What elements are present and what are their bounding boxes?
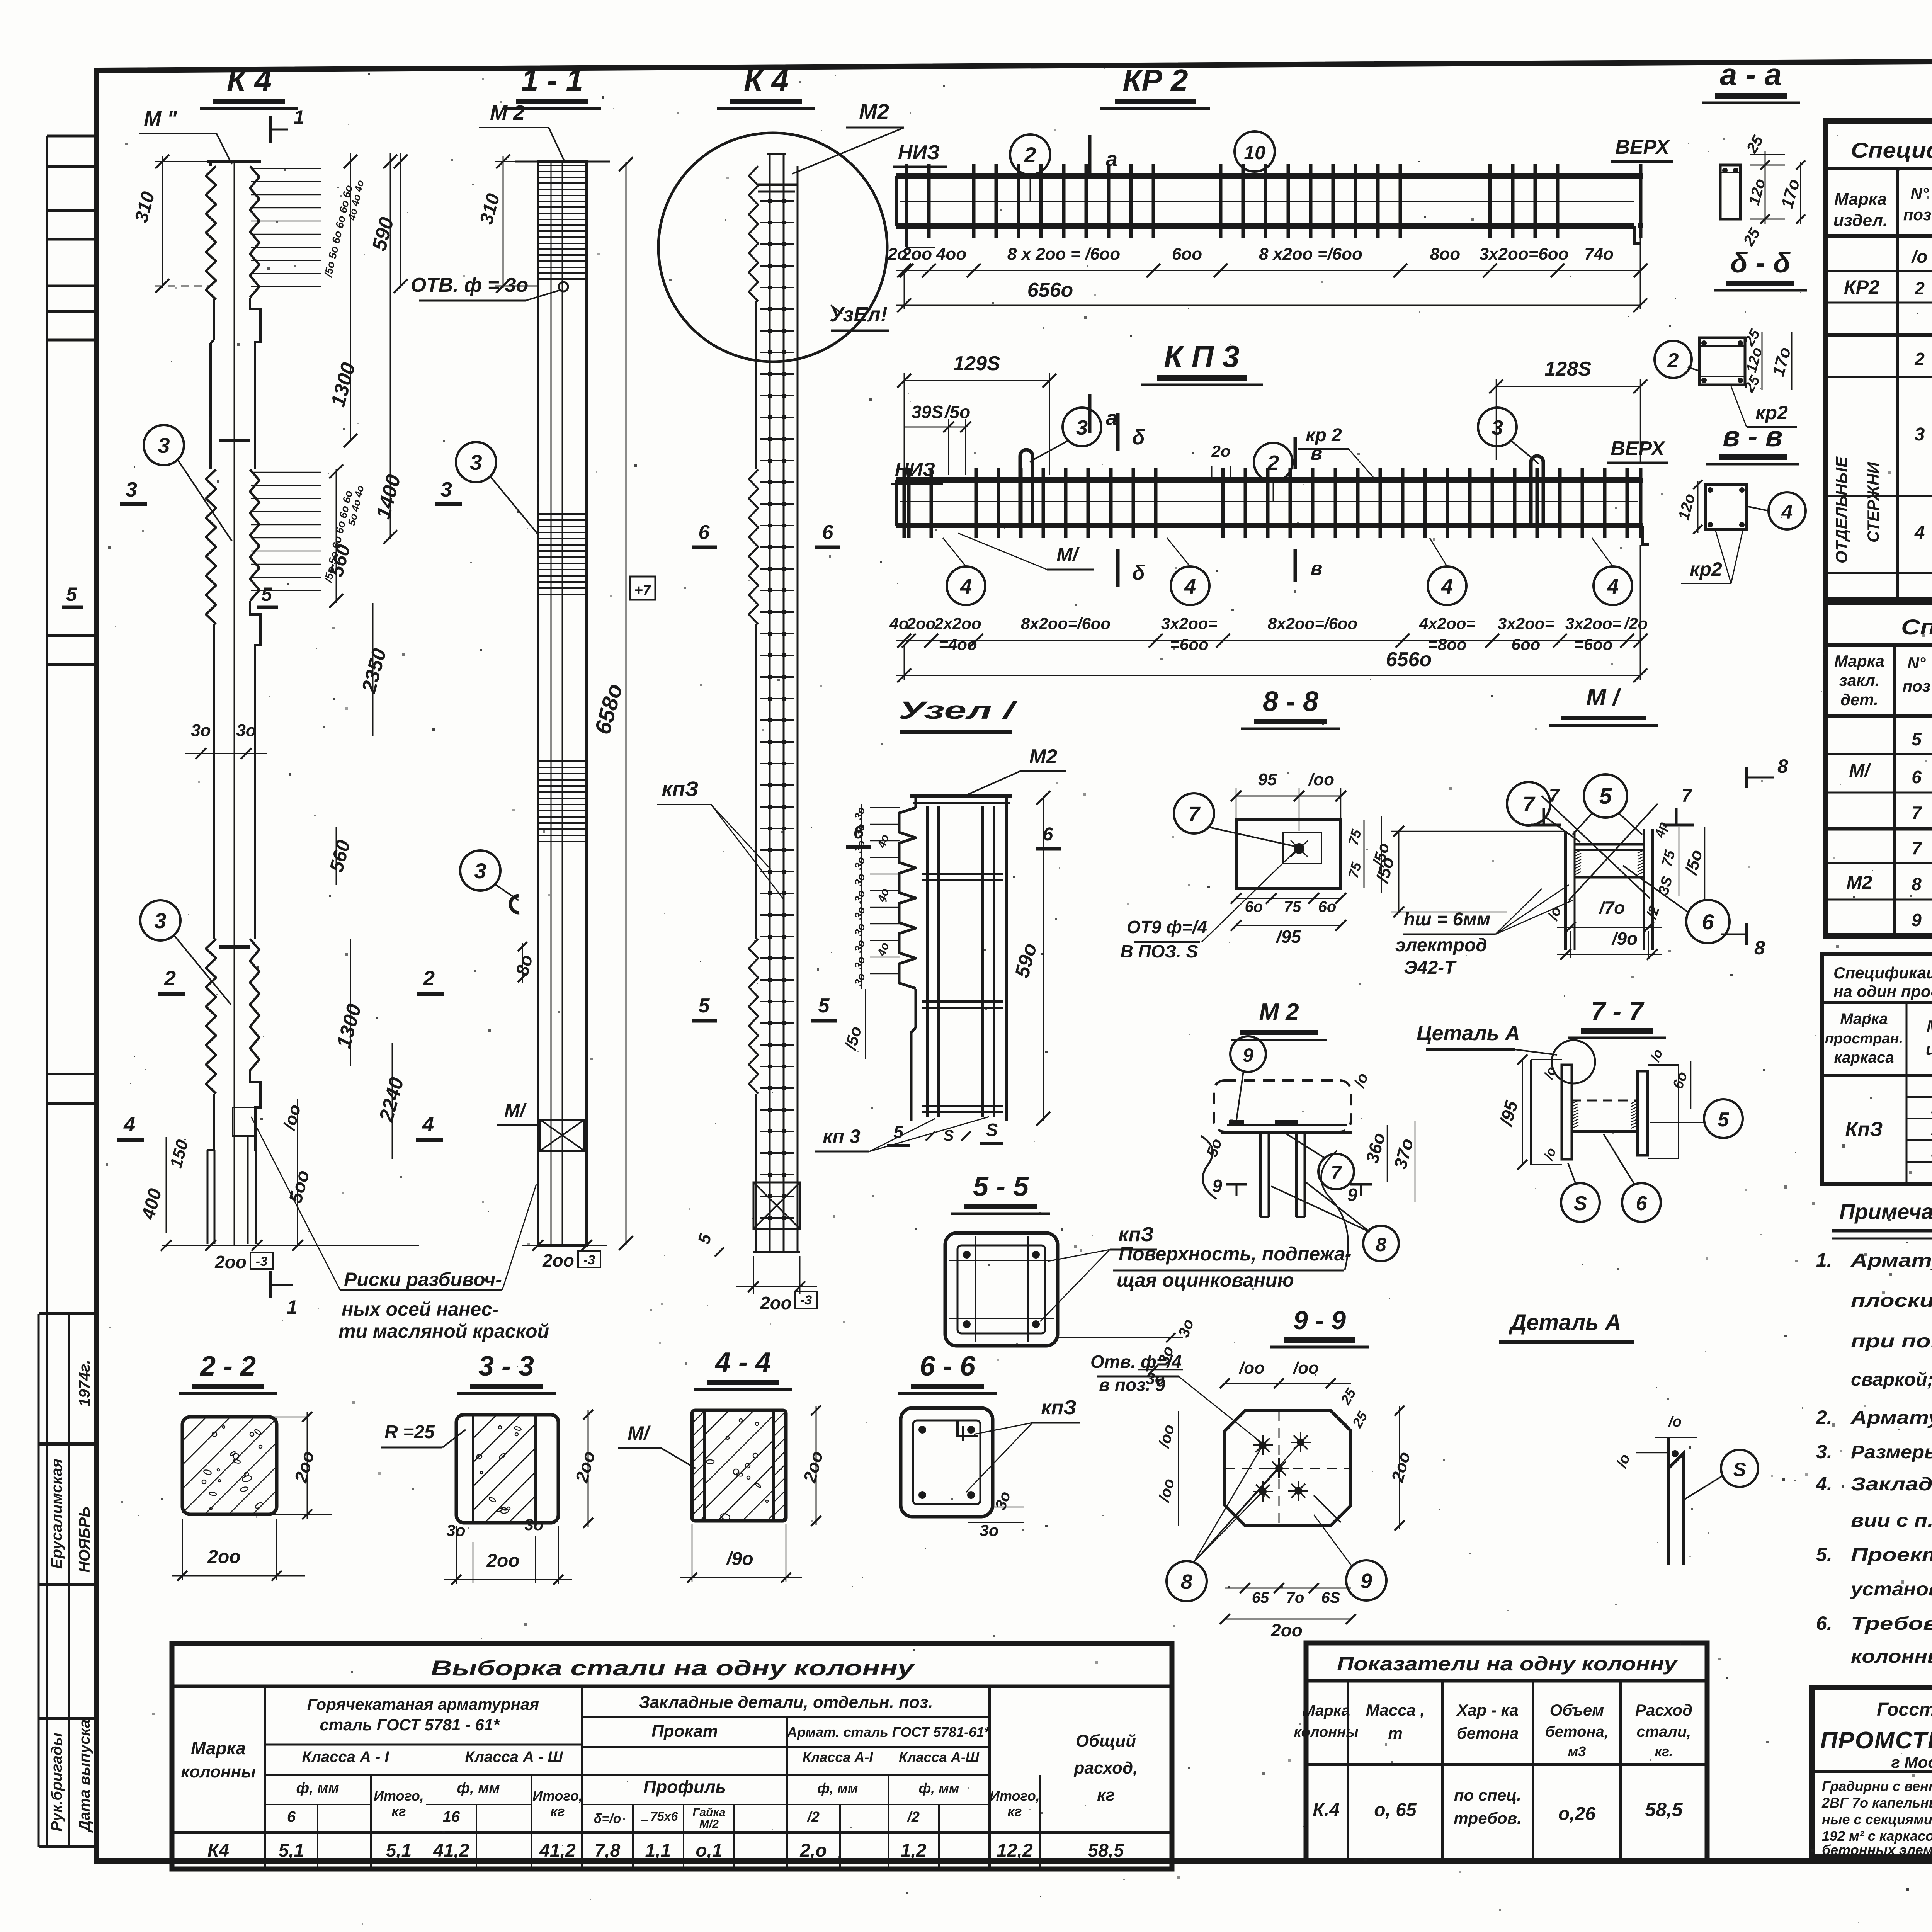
column K4 bottom legs <box>207 1150 209 1244</box>
svg-text:hш = 6мм: hш = 6мм <box>1404 909 1490 930</box>
leaders to riski text <box>251 1117 340 1290</box>
svg-text:3о: 3о <box>236 721 256 740</box>
svg-text:2оо: 2оо <box>901 245 932 264</box>
svg-text:колонны: колонны <box>181 1762 256 1781</box>
section mark a bottom <box>1088 394 1092 433</box>
svg-text:СТЕРЖНИ: СТЕРЖНИ <box>1864 462 1882 543</box>
svg-text:3о: 3о <box>191 721 211 740</box>
7-7 bar between <box>1572 1100 1638 1102</box>
svg-text:ПРОМСТРОЙПРОЕКТ: ПРОМСТРОЙПРОЕКТ <box>1820 1726 1932 1754</box>
svg-text:М/2: М/2 <box>699 1818 719 1830</box>
7-7 right plate <box>1638 1071 1648 1155</box>
svg-text:Дата выпуска: Дата выпуска <box>76 1719 93 1833</box>
svg-text:К 4: К 4 <box>227 63 272 97</box>
svg-text:3х2оо=: 3х2оо= <box>1498 614 1554 633</box>
svg-text:Выборка стали на одну коло: Выборка стали на одну колонну <box>431 1656 915 1680</box>
svg-text:129S: 129S <box>953 352 1000 375</box>
svg-text:7: 7 <box>1682 786 1693 806</box>
svg-text:192 м² с каркасом из железо-: 192 м² с каркасом из железо- <box>1822 1828 1932 1844</box>
svg-text:58,5: 58,5 <box>1088 1840 1124 1861</box>
svg-text:Класса А - I: Класса А - I <box>302 1748 389 1765</box>
svg-text:2оо: 2оо <box>486 1551 519 1571</box>
pos circle 3 (1-1) <box>456 442 496 482</box>
svg-text:/2: /2 <box>806 1809 820 1825</box>
svg-text:ные с секциями площадью: ные с секциями площадью <box>1822 1811 1932 1827</box>
svg-text:КР2: КР2 <box>1844 276 1879 298</box>
svg-text:4: 4 <box>960 575 972 598</box>
svg-text:НИЗ: НИЗ <box>895 459 935 480</box>
svg-text:2ВГ 7о капельные и брызгаль-: 2ВГ 7о капельные и брызгаль- <box>1821 1795 1932 1811</box>
pos circle 4 (v-v) <box>1769 492 1806 529</box>
svg-text:/2: /2 <box>906 1809 920 1825</box>
svg-text:7о: 7о <box>1286 1589 1304 1606</box>
svg-text:Итого,: Итого, <box>374 1788 424 1804</box>
svg-text:Спецификация и выборка стал: Спецификация и выборка стали на одно арм… <box>1851 138 1932 162</box>
pos circle 2 (b-b) <box>1655 341 1692 378</box>
svg-text:о, 65: о, 65 <box>1374 1800 1417 1820</box>
svg-text:ОТВ. ф = 3о: ОТВ. ф = 3о <box>411 274 529 296</box>
svg-text:1: 1 <box>294 106 304 128</box>
section mark b top (KP3) <box>1116 413 1120 451</box>
svg-text:Спецификация арматурных изде: Спецификация арматурных изделий <box>1833 964 1932 982</box>
svg-text:Ерусалимская: Ерусалимская <box>48 1459 65 1569</box>
vyborka grid <box>264 1686 266 1869</box>
svg-text:бетона,: бетона, <box>1545 1723 1609 1740</box>
pos circle 2 (KP3) <box>1254 443 1293 481</box>
svg-text:в: в <box>1311 558 1322 579</box>
svg-text:электрод: электрод <box>1395 935 1487 956</box>
M1 web angle <box>1575 843 1644 846</box>
svg-text:7: 7 <box>1522 792 1536 816</box>
svg-text:на один пространственный к: на один пространственный каркас <box>1833 982 1932 1000</box>
svg-text:КР 2: КР 2 <box>1122 63 1188 97</box>
svg-text:/95: /95 <box>1276 927 1301 947</box>
cage longitudinal bars <box>769 155 771 1252</box>
svg-text:41,2: 41,2 <box>433 1840 469 1861</box>
M2 plate dashed <box>1214 1080 1351 1132</box>
svg-text:М/: М/ <box>628 1422 651 1444</box>
svg-text:8х2оо=/6оо: 8х2оо=/6оо <box>1268 614 1357 633</box>
svg-text:5: 5 <box>699 995 710 1017</box>
9-9 pos circle 8 <box>1167 1561 1207 1601</box>
svg-text:Гайка: Гайка <box>692 1806 725 1819</box>
svg-text:=4оо: =4оо <box>939 635 977 653</box>
svg-text:7: 7 <box>1549 786 1560 806</box>
svg-text:ф, мм: ф, мм <box>457 1780 500 1796</box>
svg-text:2х2оо: 2х2оо <box>934 614 981 633</box>
ribbed band top (1-1) <box>539 165 585 166</box>
svg-text:8: 8 <box>1181 1570 1192 1594</box>
column 1-1 outline <box>515 161 610 163</box>
svg-text:К 4: К 4 <box>744 63 789 97</box>
svg-text:4: 4 <box>1441 575 1453 598</box>
svg-text:М 2: М 2 <box>1259 999 1299 1026</box>
svg-text:3х2оо=6оо: 3х2оо=6оо <box>1479 245 1568 264</box>
svg-text:по спец.: по спец. <box>1454 1786 1521 1804</box>
small dimension fan lines top band <box>251 168 321 169</box>
svg-text:6о: 6о <box>1245 898 1263 915</box>
8-8 dims above <box>1236 796 1341 797</box>
svg-text:7: 7 <box>1331 1162 1342 1184</box>
8-8 dims right <box>1364 820 1365 888</box>
svg-text:бетонных элементов: бетонных элементов <box>1822 1842 1932 1858</box>
scan noise speckles <box>1689 1446 1691 1449</box>
svg-text:9: 9 <box>1347 1185 1357 1205</box>
svg-text:2: 2 <box>164 967 176 990</box>
uzel1 stirrup ties <box>922 873 1003 875</box>
dim lines column K4 <box>400 153 401 288</box>
svg-text:Спецификация стали на одну: Спецификация стали на одну закладную дет… <box>1901 615 1932 639</box>
column 1-1 base with M1 embed cross <box>540 1120 584 1151</box>
svg-text:8: 8 <box>1754 937 1765 959</box>
svg-text:кг: кг <box>391 1803 406 1819</box>
M1 plates <box>1564 831 1567 950</box>
detail A dims <box>1655 1437 1697 1438</box>
section a-a drawing <box>1720 165 1740 219</box>
table pokazateli outer <box>1306 1643 1707 1861</box>
svg-text:3х2оо=: 3х2оо= <box>1565 614 1622 633</box>
svg-text:74о: 74о <box>1584 245 1614 264</box>
svg-text:простран.: простран. <box>1825 1031 1903 1047</box>
pos circle 3 (KP3 left) <box>1063 408 1101 446</box>
svg-text:Риски разбивоч-: Риски разбивоч- <box>344 1269 502 1290</box>
svg-text:г Москва 1973г: г Москва 1973г <box>1891 1753 1932 1771</box>
svg-text:7: 7 <box>1188 803 1201 826</box>
9-9 dims left <box>1178 1411 1179 1526</box>
svg-text:Марка: Марка <box>1834 190 1887 209</box>
svg-text:6: 6 <box>1636 1192 1648 1215</box>
svg-text:2: 2 <box>423 967 435 990</box>
svg-text:9: 9 <box>1912 910 1922 930</box>
svg-text:Класса А - Ш: Класса А - Ш <box>465 1748 563 1765</box>
svg-text:/оо: /оо <box>1238 1359 1265 1378</box>
svg-text:3.: 3. <box>1816 1441 1832 1463</box>
8-8 dims below <box>1236 898 1341 899</box>
KP3 frame bars <box>896 477 1642 483</box>
svg-text:а - а: а - а <box>1720 57 1782 92</box>
pos circle 3 (KP3 right) <box>1478 408 1517 446</box>
svg-text:кр2: кр2 <box>1690 558 1722 580</box>
svg-text:8х2оо=/6оо: 8х2оо=/6оо <box>1021 614 1111 633</box>
svg-text:75: 75 <box>1284 898 1301 915</box>
svg-text:6: 6 <box>1912 767 1922 787</box>
svg-text:9 - 9: 9 - 9 <box>1293 1306 1346 1335</box>
pos circles 4 (KP3) <box>947 566 985 605</box>
svg-text:+7: +7 <box>634 582 651 599</box>
section b-b drawing <box>1699 338 1745 385</box>
KP3 dim 1285 right <box>1496 386 1640 387</box>
310 dim col1 <box>162 156 163 288</box>
svg-text:расход,: расход, <box>1074 1759 1138 1777</box>
8-8 plate rect <box>1236 820 1341 888</box>
M2 pos circle 8 <box>1363 1226 1399 1261</box>
svg-text:1,1: 1,1 <box>645 1840 671 1861</box>
svg-text:/о: /о <box>1911 247 1928 267</box>
svg-text:5: 5 <box>1718 1109 1730 1131</box>
column K4 cage outline <box>767 153 786 155</box>
svg-text:=6оо: =6оо <box>1170 635 1208 653</box>
svg-text:4о: 4о <box>889 614 908 633</box>
pos circle 3 (1-1 mid) + hook <box>460 850 500 891</box>
cage stirrup ticks <box>760 200 794 202</box>
svg-text:щая оцинкованию: щая оцинкованию <box>1117 1269 1294 1291</box>
svg-text:Класса А-Ш: Класса А-Ш <box>899 1749 980 1765</box>
svg-text:5: 5 <box>261 583 272 605</box>
detail A drawing <box>1668 1437 1684 1565</box>
KR2 stirrups <box>905 164 908 238</box>
svg-text:4х2оо=: 4х2оо= <box>1419 614 1476 633</box>
svg-text:95: 95 <box>1258 770 1277 789</box>
stamp signature block <box>39 1312 97 1315</box>
9-9 pos circle 9 <box>1346 1560 1386 1600</box>
svg-text:3 - 3: 3 - 3 <box>478 1351 534 1382</box>
section mark a top <box>1088 135 1092 174</box>
svg-text:Марка: Марка <box>191 1738 246 1758</box>
svg-text:∟75х6: ∟75х6 <box>638 1810 678 1823</box>
svg-text:ВЕРХ: ВЕРХ <box>1615 136 1670 158</box>
svg-text:3: 3 <box>1915 424 1925 445</box>
svg-text:сваркой; закладную деталь М2: сваркой; закладную деталь М2 - сваркой п… <box>1851 1369 1932 1390</box>
svg-text:Прокат: Прокат <box>651 1722 718 1741</box>
svg-text:5,1: 5,1 <box>279 1840 304 1861</box>
9-9 weld bursts <box>1259 1441 1267 1449</box>
svg-text:КпЗ: КпЗ <box>1845 1118 1883 1141</box>
svg-text:5.: 5. <box>1816 1544 1832 1565</box>
svg-text:НОЯБРЬ: НОЯБРЬ <box>76 1507 93 1573</box>
svg-text:3: 3 <box>440 478 452 501</box>
svg-text:вии с п. 3.1о пояснительной: вии с п. 3.1о пояснительной записки. <box>1851 1510 1932 1531</box>
svg-text:Градирни с вентиляторами: Градирни с вентиляторами <box>1822 1778 1932 1794</box>
svg-text:м3: м3 <box>1568 1743 1586 1759</box>
svg-text:16: 16 <box>443 1808 460 1825</box>
svg-text:стали,: стали, <box>1637 1723 1691 1740</box>
svg-text:7: 7 <box>1912 838 1922 858</box>
svg-text:кр 2: кр 2 <box>1306 425 1342 446</box>
svg-text:/5о: /5о <box>944 402 970 422</box>
section 4-4 square <box>692 1410 786 1521</box>
cage base <box>753 1182 800 1229</box>
svg-text:=8оо: =8оо <box>1428 635 1466 653</box>
svg-text:Класса А-I: Класса А-I <box>803 1749 874 1765</box>
svg-text:S: S <box>1574 1192 1587 1215</box>
svg-text:3: 3 <box>1076 416 1088 439</box>
svg-text:Закладные детали, отдельн. п: Закладные детали, отдельн. поз. <box>639 1693 933 1712</box>
svg-text:656о: 656о <box>1027 279 1073 301</box>
svg-text:М/: М/ <box>1849 760 1871 781</box>
svg-text:6оо: 6оо <box>1172 245 1202 264</box>
svg-text:12,2: 12,2 <box>997 1840 1033 1861</box>
table spec frames outer <box>1822 954 1932 1184</box>
svg-text:6: 6 <box>822 521 834 544</box>
pos circle 2 (KR2) <box>1010 134 1050 175</box>
ribbed band mid1 (1-1) <box>539 513 585 515</box>
svg-text:6оо: 6оо <box>1512 635 1541 653</box>
svg-text:3: 3 <box>474 859 486 883</box>
svg-text:Требования к бетону и стал: Требования к бетону и стали и указания п… <box>1851 1614 1932 1634</box>
svg-text:/2о: /2о <box>1624 614 1648 633</box>
svg-text:3: 3 <box>158 433 170 457</box>
svg-text:4 - 4: 4 - 4 <box>714 1347 771 1378</box>
svg-text:кпЗ: кпЗ <box>1118 1223 1154 1246</box>
svg-text:2: 2 <box>1024 143 1036 167</box>
KP3 dimension line <box>896 640 1640 641</box>
svg-text:7,8: 7,8 <box>595 1840 621 1861</box>
svg-text:УзЕл!: УзЕл! <box>830 303 888 326</box>
svg-text:4: 4 <box>1607 575 1619 598</box>
svg-text:6: 6 <box>854 822 864 843</box>
svg-text:Марка: Марка <box>1834 652 1884 670</box>
svg-text:39S: 39S <box>912 402 943 422</box>
svg-text:М/: М/ <box>1056 544 1080 565</box>
M1 cross diagonals <box>1542 796 1650 898</box>
section 2-2 square <box>182 1417 277 1514</box>
svg-text:3: 3 <box>126 478 137 501</box>
svg-text:1,2: 1,2 <box>901 1840 927 1861</box>
svg-text:58,5: 58,5 <box>1645 1799 1683 1820</box>
svg-text:2о: 2о <box>1211 442 1230 460</box>
svg-text:Объем: Объем <box>1550 1701 1604 1719</box>
table vyborka stali outer <box>172 1644 1172 1869</box>
svg-text:-3: -3 <box>583 1253 595 1267</box>
svg-text:/оо: /оо <box>1308 770 1334 789</box>
lifting hole <box>559 282 568 291</box>
KP3 dim 395 150 <box>904 427 966 428</box>
svg-text:3: 3 <box>470 450 482 474</box>
svg-text:8 - 8: 8 - 8 <box>1263 686 1318 717</box>
svg-text:2 - 2: 2 - 2 <box>199 1351 256 1382</box>
svg-text:издел.: издел. <box>1926 1040 1932 1058</box>
svg-text:3: 3 <box>1492 416 1503 439</box>
svg-text:1 - 1: 1 - 1 <box>521 63 583 97</box>
M2 section marks 9 <box>1226 1183 1247 1186</box>
svg-text:2.: 2. <box>1816 1406 1832 1428</box>
uzel1 column segment <box>899 808 916 988</box>
svg-text:о,26: о,26 <box>1558 1804 1595 1824</box>
svg-text:1: 1 <box>287 1296 298 1318</box>
KR2 frame bars <box>896 173 1640 179</box>
svg-text:7: 7 <box>1912 803 1922 823</box>
svg-text:2: 2 <box>1667 349 1679 372</box>
svg-text:2оо: 2оо <box>760 1293 792 1313</box>
svg-text:Рук.бригады: Рук.бригады <box>48 1733 65 1832</box>
svg-text:δ: δ <box>1132 561 1145 584</box>
svg-text:издел.: издел. <box>1833 211 1888 230</box>
svg-text:9: 9 <box>1243 1044 1253 1066</box>
svg-text:бетона: бетона <box>1457 1724 1519 1742</box>
svg-text:-3: -3 <box>800 1293 812 1308</box>
svg-text:/7о: /7о <box>1599 898 1625 918</box>
svg-text:Масса ,: Масса , <box>1366 1701 1425 1719</box>
title block outer <box>1812 1687 1932 1857</box>
8-8 pos circle 7 <box>1174 793 1214 833</box>
svg-text:требов.: требов. <box>1454 1809 1522 1827</box>
section mark v bottom (KP3) <box>1294 549 1297 582</box>
9-9 dims below <box>1225 1588 1351 1589</box>
svg-text:3о: 3о <box>524 1515 543 1534</box>
svg-text:К.4: К.4 <box>1313 1800 1340 1820</box>
svg-text:о,1: о,1 <box>696 1840 722 1861</box>
svg-text:ных осей нанес-: ных осей нанес- <box>342 1298 498 1320</box>
M2 top plate <box>1221 1131 1352 1134</box>
svg-text:9: 9 <box>1212 1176 1222 1196</box>
svg-text:4: 4 <box>422 1113 434 1136</box>
svg-text:656о: 656о <box>1386 648 1432 671</box>
svg-text:Поверхность, подпежа-: Поверхность, подпежа- <box>1119 1243 1351 1265</box>
M2 pos circle 9 <box>1230 1036 1266 1072</box>
svg-text:кп 3: кп 3 <box>823 1126 861 1147</box>
svg-text:N°: N° <box>1910 184 1929 202</box>
svg-text:ф, мм: ф, мм <box>817 1780 858 1796</box>
svg-text:колонны см. в пояснительной: колонны см. в пояснительной записке . <box>1851 1646 1932 1667</box>
svg-text:кпЗ: кпЗ <box>1041 1396 1077 1419</box>
svg-text:3о: 3о <box>1146 1369 1165 1388</box>
svg-text:В ПОЗ. S: В ПОЗ. S <box>1121 941 1198 961</box>
svg-text:Марка: Марка <box>1302 1702 1350 1719</box>
svg-text:дет.: дет. <box>1840 690 1878 709</box>
section mark v top (KP3) <box>1294 437 1297 469</box>
7-7 weld hatch <box>1572 1100 1578 1104</box>
svg-text:поз.: поз. <box>1903 206 1932 224</box>
M1 section marks 8 <box>1745 767 1748 788</box>
M2 pos circle 7 <box>1318 1154 1354 1189</box>
svg-text:Размеры каркасов даны по о: Размеры каркасов даны по осям стержней. <box>1851 1442 1932 1463</box>
detail A pos circle 5 <box>1721 1450 1758 1487</box>
M2 break squiggle <box>1201 1136 1216 1199</box>
svg-text:Э42-Т: Э42-Т <box>1404 957 1457 978</box>
svg-text:5: 5 <box>1912 729 1922 749</box>
svg-text:4: 4 <box>1184 575 1196 598</box>
svg-text:К П 3: К П 3 <box>1164 339 1240 374</box>
svg-text:8оо: 8оо <box>1430 245 1460 264</box>
svg-text:41,2: 41,2 <box>539 1840 576 1861</box>
svg-text:в - в: в - в <box>1723 420 1782 452</box>
7-7 pos circles <box>1704 1099 1743 1138</box>
svg-text:Марка: Марка <box>1927 1017 1932 1035</box>
svg-text:2,о: 2,о <box>799 1840 827 1861</box>
svg-text:9: 9 <box>1361 1570 1372 1593</box>
dim 6580 (1-1) <box>626 162 627 1245</box>
KP3 dim 1295 <box>904 380 1049 381</box>
svg-text:Горячекатаная арматурная: Горячекатаная арматурная <box>307 1695 539 1713</box>
svg-text:R =25: R =25 <box>384 1422 435 1442</box>
svg-text:5,1: 5,1 <box>386 1840 412 1861</box>
svg-text:4: 4 <box>123 1113 135 1136</box>
svg-text:128S: 128S <box>1544 358 1592 380</box>
svg-text:1974г.: 1974г. <box>76 1360 93 1406</box>
svg-text:поз: поз <box>1903 677 1931 695</box>
dim 310 (1-1) <box>503 156 504 288</box>
svg-text:2: 2 <box>1914 349 1925 369</box>
svg-text:4: 4 <box>1781 501 1793 523</box>
svg-text:НИЗ: НИЗ <box>898 141 940 164</box>
svg-text:10: 10 <box>1244 142 1265 163</box>
svg-text:Армат. сталь ГОСТ 5781-61*: Армат. сталь ГОСТ 5781-61* <box>787 1724 990 1740</box>
cage top M2 plate <box>757 184 797 186</box>
left stamp column boxes <box>46 136 48 1847</box>
svg-text:К4: К4 <box>207 1840 229 1861</box>
svg-text:2оо: 2оо <box>542 1250 574 1270</box>
svg-text:Деталь А: Деталь А <box>1508 1310 1621 1335</box>
section 5-5 square <box>945 1233 1058 1346</box>
svg-text:65: 65 <box>1252 1589 1269 1606</box>
svg-text:S: S <box>1733 1459 1746 1480</box>
uzel1 M2 top plate <box>910 794 1012 798</box>
svg-text:М ": М " <box>144 107 177 130</box>
M2 stems <box>1259 1132 1262 1217</box>
7-7 left plate <box>1562 1065 1572 1159</box>
table spec armature outer <box>1826 121 1932 600</box>
9-9 plate octagon <box>1225 1411 1351 1526</box>
